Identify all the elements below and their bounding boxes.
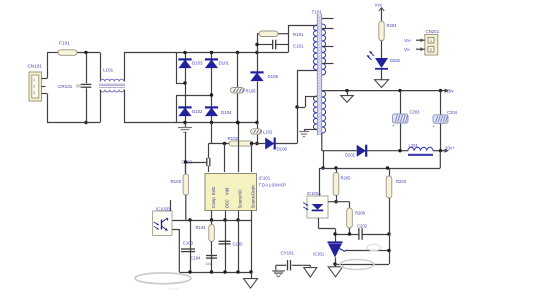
svg-text:2: 2 <box>33 85 35 89</box>
svg-text:1: 1 <box>430 39 432 43</box>
svg-text:C101: C101 <box>293 44 304 49</box>
svg-text:Vdd: Vdd <box>225 187 230 195</box>
svg-text:D201: D201 <box>345 153 356 158</box>
svg-text:R101: R101 <box>293 32 304 37</box>
svg-text:IC101: IC101 <box>259 176 271 181</box>
svg-text:Source: Source <box>238 195 243 209</box>
svg-text:R106: R106 <box>246 89 257 94</box>
svg-text:20v+: 20v+ <box>445 145 455 150</box>
svg-text:CN201: CN201 <box>426 29 440 34</box>
svg-text:C105: C105 <box>233 241 244 246</box>
svg-text:CY101: CY101 <box>281 251 295 256</box>
svg-text:R204: R204 <box>387 23 398 28</box>
svg-text:L201: L201 <box>409 143 419 148</box>
svg-text:D102: D102 <box>192 109 203 114</box>
svg-text:1: 1 <box>33 78 35 82</box>
svg-text:TDA16846P: TDA16846P <box>259 182 287 187</box>
svg-text:Vo+: Vo+ <box>404 38 412 43</box>
svg-text:R103: R103 <box>171 179 182 184</box>
svg-text:+: + <box>433 124 436 129</box>
svg-text:CN101: CN101 <box>28 64 43 69</box>
svg-text:L102: L102 <box>263 130 273 135</box>
svg-text:C204: C204 <box>447 110 458 115</box>
svg-text:IC201: IC201 <box>313 252 325 257</box>
svg-text:D103: D103 <box>192 61 203 66</box>
svg-text:R205: R205 <box>341 176 352 181</box>
svg-text:Drain: Drain <box>251 184 256 195</box>
svg-text:L101: L101 <box>103 68 114 73</box>
svg-text:Vo-: Vo- <box>404 47 411 52</box>
svg-text:CR101: CR101 <box>58 84 73 89</box>
svg-text:~~~: ~~~ <box>168 287 179 292</box>
svg-text:C103: C103 <box>183 241 194 246</box>
svg-text:Vcc: Vcc <box>375 3 383 8</box>
svg-text:C202: C202 <box>357 224 368 229</box>
svg-text:OSC: OSC <box>225 199 230 208</box>
svg-text:D106: D106 <box>277 147 288 152</box>
svg-text:D101: D101 <box>219 61 230 66</box>
svg-text:3: 3 <box>33 91 35 95</box>
svg-text:NC: NC <box>238 189 243 195</box>
svg-text:IC102A: IC102A <box>307 191 321 196</box>
svg-text:D105: D105 <box>268 74 279 79</box>
svg-text:R104: R104 <box>196 225 207 230</box>
svg-text:T101: T101 <box>312 10 323 15</box>
svg-text:F101: F101 <box>59 41 70 47</box>
svg-text:Ext1: Ext1 <box>211 186 216 195</box>
svg-text:2: 2 <box>430 48 432 52</box>
svg-text:+: + <box>392 124 395 129</box>
svg-text:Comp: Comp <box>211 197 216 209</box>
svg-text:104: 104 <box>205 262 211 266</box>
svg-text:C104: C104 <box>191 256 202 261</box>
svg-text:IC102B: IC102B <box>156 206 170 211</box>
svg-text:Source: Source <box>251 195 256 209</box>
svg-text:C203: C203 <box>410 110 421 115</box>
svg-text:-20v: -20v <box>445 88 454 93</box>
svg-text:D202: D202 <box>390 58 401 63</box>
svg-text:D104: D104 <box>221 110 232 115</box>
svg-text:R203: R203 <box>396 179 407 184</box>
svg-text:R102: R102 <box>228 136 239 141</box>
svg-text:R206: R206 <box>355 211 366 216</box>
